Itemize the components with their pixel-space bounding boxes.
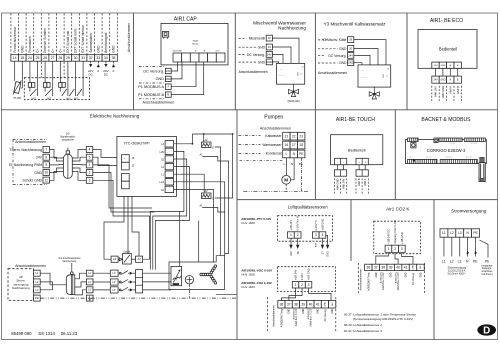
svg-text:DC: DC	[104, 72, 109, 76]
svg-text:27: 27	[51, 56, 55, 60]
svg-text:Kondensat: Kondensat	[266, 152, 282, 156]
svg-text:GND: GND	[327, 251, 330, 257]
svg-text:Elektrische Nachheizung: Elektrische Nachheizung	[90, 113, 140, 118]
svg-text:GND: GND	[258, 60, 266, 64]
svg-text:DC: DC	[89, 72, 94, 76]
svg-text:GND: GND	[391, 272, 393, 277]
svg-text:37: 37	[322, 251, 325, 254]
svg-text:26: 26	[43, 56, 47, 60]
svg-text:L2: L2	[450, 231, 454, 235]
svg-text:40-41: Luftqualitätssensor 3: 40-41: Luftqualitätssensor 3	[344, 329, 382, 333]
svg-text:+UB GND: +UB GND	[400, 232, 404, 244]
svg-text:06.11.23: 06.11.23	[61, 331, 78, 336]
svg-text:24V: 24V	[290, 251, 293, 256]
svg-text:A2: A2	[138, 257, 142, 261]
svg-text:HMI B: HMI B	[456, 86, 460, 94]
svg-text:N/O: N/O	[74, 97, 78, 100]
svg-text:3: 3	[401, 247, 403, 251]
svg-text:GND: GND	[339, 61, 347, 65]
svg-text:36: 36	[366, 266, 370, 270]
svg-text:GND: GND	[348, 61, 354, 65]
svg-text:GND: GND	[413, 265, 415, 270]
svg-text:EXT Schalt norm: EXT Schalt norm	[74, 28, 78, 52]
svg-text:L3': L3'	[88, 288, 92, 292]
svg-text:2x5: 2x5	[66, 134, 70, 136]
svg-text:GND: GND	[96, 45, 100, 53]
svg-text:Anschlussklemmen: Anschlussklemmen	[127, 23, 131, 52]
svg-text:xxx xxxx: xxx xxxx	[466, 157, 472, 159]
svg-text:PE: PE	[299, 152, 303, 156]
svg-text:0: 0	[97, 69, 99, 73]
svg-text:25: 25	[36, 56, 40, 60]
svg-text:+UB 24V: +UB 24V	[289, 220, 293, 231]
svg-text:24: 24	[28, 56, 32, 60]
svg-text:L3: L3	[458, 259, 462, 263]
svg-text:Signalverteiler-: Signalverteiler-	[60, 136, 76, 139]
svg-text:HMI B: HMI B	[357, 178, 361, 186]
svg-text:11: 11	[45, 178, 49, 182]
svg-text:L1': L1'	[88, 271, 92, 275]
svg-text:3: 3	[315, 233, 317, 237]
svg-text:Therm. Nachheizung: Therm. Nachheizung	[10, 148, 43, 152]
svg-text:Zuluft bzw. 0-10V: Zuluft bzw. 0-10V	[295, 308, 298, 326]
svg-text:Nachheizung: Nachheizung	[12, 286, 30, 290]
svg-text:36: 36	[297, 251, 300, 254]
svg-text:Anschlussklemmen: Anschlussklemmen	[15, 140, 46, 144]
svg-text:Abluft bzw. 0-10V: Abluft bzw. 0-10V	[309, 308, 312, 326]
svg-text:A1: A1	[113, 257, 117, 261]
svg-text:GND: GND	[156, 77, 165, 81]
svg-text:Bedienteil: Bedienteil	[439, 47, 457, 52]
svg-text:AIR1/KWL-CO2 0-10V: AIR1/KWL-CO2 0-10V	[241, 281, 272, 285]
svg-text:GND: GND	[112, 45, 116, 53]
svg-text:33: 33	[96, 56, 100, 60]
svg-text:HMI 24V: HMI 24V	[342, 178, 346, 189]
svg-text:2: 2	[297, 233, 299, 237]
svg-text:L: L	[286, 152, 288, 156]
svg-text:0-10V °C: 0-10V °C	[314, 220, 318, 231]
svg-text:AIR1/KWL-VOC 0-10V: AIR1/KWL-VOC 0-10V	[241, 269, 272, 273]
svg-text:L1: L1	[442, 259, 446, 263]
svg-text:GND: GND	[34, 171, 42, 175]
svg-text:1: 1	[388, 247, 390, 251]
svg-text:22: 22	[292, 134, 296, 138]
svg-text:Externer Schalter: Externer Schalter	[43, 27, 47, 53]
svg-text:Frostschutzsensor: Frostschutzsensor	[13, 26, 17, 53]
svg-text:AGND(24V): AGND(24V)	[380, 272, 383, 283]
svg-text:- - - -: - - - -	[279, 75, 285, 78]
svg-text:L2N: L2N	[160, 151, 165, 154]
svg-text:DC Versorg.: DC Versorg.	[412, 272, 415, 285]
svg-text:38: 38	[381, 266, 385, 270]
svg-text:Anschlussklemmen: Anschlussklemmen	[359, 268, 362, 290]
svg-text:GND: GND	[332, 308, 334, 313]
svg-text:GND: GND	[289, 308, 291, 313]
svg-text:PT-050: PT-050	[14, 98, 22, 100]
svg-text:0-10V: 0-10V	[300, 273, 304, 280]
svg-text:+UB GND: +UB GND	[321, 219, 325, 231]
svg-text:xxx xxxx: xxx xxxx	[446, 157, 452, 159]
svg-text:L1": L1"	[112, 272, 116, 275]
svg-text:GND: GND	[258, 46, 266, 50]
svg-text:Mischventil Warmwasser: Mischventil Warmwasser	[253, 20, 306, 26]
svg-text:19: 19	[349, 38, 352, 42]
svg-text:Y3 Mischventil Kaltwassersatz: Y3 Mischventil Kaltwassersatz	[324, 21, 386, 26]
svg-text:Art-Nr. 26201: Art-Nr. 26201	[241, 286, 255, 289]
svg-text:A2: A2	[204, 190, 208, 193]
svg-text:HMI GND: HMI GND	[336, 178, 340, 190]
svg-text:HMI GND: HMI GND	[441, 86, 445, 99]
svg-text:Schütz GND: Schütz GND	[23, 179, 43, 183]
svg-text:Schütz: Schütz	[123, 250, 131, 253]
svg-text:A1: A1	[199, 205, 203, 208]
svg-text:24V: 24V	[348, 53, 353, 57]
svg-text:24V: 24V	[36, 156, 43, 160]
svg-text:GND: GND	[339, 47, 347, 51]
svg-text:EXT Schalt intensiv: EXT Schalt intensiv	[81, 25, 85, 53]
svg-text:AIR1-BE TOUCH: AIR1-BE TOUCH	[336, 117, 375, 123]
svg-text:Bedienteil: Bedienteil	[348, 147, 366, 152]
svg-text:xxx: xxx	[409, 157, 412, 159]
svg-text:PE: PE	[35, 296, 39, 300]
svg-text:29: 29	[66, 56, 70, 60]
svg-text:AGND(24V)/Temp: AGND(24V)/Temp	[280, 308, 283, 327]
svg-text:38-39: Luftqualitätssensor 2: 38-39: Luftqualitätssensor 2	[344, 323, 382, 327]
svg-text:Stromversorg.: Stromversorg.	[62, 260, 77, 263]
svg-text:17: 17	[292, 143, 296, 147]
svg-text:2: 2	[394, 247, 396, 251]
svg-text:B: B	[167, 93, 169, 97]
svg-text:DC Versorg.: DC Versorg.	[324, 308, 327, 321]
svg-text:GND: GND	[441, 65, 446, 67]
svg-text:Anschlussklemmen: Anschlussklemmen	[239, 70, 268, 74]
svg-text:41: 41	[404, 266, 408, 270]
svg-text:EXT Schalt min: EXT Schalt min	[66, 31, 70, 53]
svg-text:M: M	[284, 178, 288, 183]
svg-text:AGND(24V): AGND(24V)	[395, 272, 398, 283]
svg-text:24V: 24V	[166, 69, 171, 73]
svg-text:Zuluft bzw. 0-10V: Zuluft bzw. 0-10V	[382, 272, 385, 290]
svg-text:34: 34	[104, 56, 108, 60]
svg-text:7: 7	[45, 148, 47, 152]
svg-text:Abluft bzw. 0-10V: Abluft bzw. 0-10V	[397, 272, 400, 290]
svg-text:GND: GND	[420, 272, 422, 277]
svg-text:L: L	[284, 162, 286, 166]
svg-text:1x2,5mm²): 1x2,5mm²)	[481, 273, 493, 276]
svg-text:DC Versorg.: DC Versorg.	[143, 70, 164, 74]
svg-text:24V: 24V	[433, 79, 438, 81]
svg-text:39: 39	[389, 266, 393, 270]
svg-text:Nachheizung: Nachheizung	[278, 26, 306, 32]
svg-text:(Temperaturausgang AIR1/KWL-FT: (Temperaturausgang AIR1/KWL-FTF 0-10V)	[353, 317, 414, 321]
svg-text:4: 4	[322, 233, 324, 237]
svg-text:1: 1	[89, 163, 91, 167]
svg-text:1: 1	[295, 283, 297, 287]
svg-text:Betriebssignal: Betriebssignal	[104, 32, 108, 52]
svg-text:18: 18	[299, 143, 303, 147]
svg-text:SS 1314: SS 1314	[38, 331, 55, 336]
svg-text:23: 23	[299, 134, 303, 138]
svg-text:10: 10	[44, 171, 48, 175]
svg-text:xxxx xxxx: xxxx xxxx	[471, 142, 478, 144]
svg-text:L2": L2"	[112, 281, 116, 284]
svg-text:xxx xxxx: xxx xxxx	[449, 142, 455, 144]
svg-text:GND: GND	[440, 79, 445, 81]
svg-text:P1 MODBUS B: P1 MODBUS B	[138, 93, 164, 97]
svg-text:14: 14	[13, 56, 17, 60]
svg-text:Air1 CO2 K: Air1 CO2 K	[386, 206, 410, 211]
svg-text:A1: A1	[199, 154, 203, 157]
svg-text:GND: GND	[165, 77, 171, 81]
svg-text:C+: C+	[58, 48, 62, 52]
svg-text:AGND(24V)/Temp: AGND(24V)/Temp	[367, 272, 370, 291]
svg-text:N: N	[291, 162, 293, 166]
svg-text:AIR1/KWL-PTF 0-10V: AIR1/KWL-PTF 0-10V	[241, 217, 271, 221]
svg-text:PE: PE	[473, 231, 478, 235]
svg-text:0-10V % r.H.: 0-10V % r.H.	[296, 215, 300, 230]
svg-text:Feueralarm: Feueralarm	[28, 36, 32, 53]
svg-text:Art-Nr. 26200: Art-Nr. 26200	[241, 274, 255, 277]
svg-text:C+: C+	[51, 48, 55, 52]
svg-text:Art-Nr. 26262: Art-Nr. 26262	[241, 222, 255, 225]
svg-text:+UB 24V: +UB 24V	[294, 269, 298, 280]
svg-text:GND: GND	[318, 308, 320, 313]
svg-text:4: 4	[89, 148, 91, 152]
svg-text:G: G	[212, 147, 214, 150]
svg-text:GND: GND	[376, 272, 378, 277]
svg-text:xxx xxxx: xxx xxxx	[426, 157, 432, 159]
svg-text:2: 2	[89, 171, 91, 175]
svg-text:- - - -: - - - -	[362, 76, 368, 79]
svg-text:40: 40	[309, 302, 313, 306]
svg-text:15: 15	[20, 56, 24, 60]
svg-text:0: 0	[113, 69, 115, 73]
svg-text:37: 37	[374, 266, 378, 270]
svg-text:GND: GND	[20, 45, 24, 53]
svg-text:20: 20	[349, 46, 352, 50]
svg-text:24V: 24V	[434, 65, 438, 67]
svg-text:28: 28	[58, 56, 62, 60]
svg-text:3: 3	[308, 283, 310, 287]
svg-text:TTC-OEMUT/PP: TTC-OEMUT/PP	[124, 141, 151, 145]
svg-text:AIR1- BE ECO: AIR1- BE ECO	[430, 18, 463, 24]
svg-text:24V DC/RO: 24V DC/RO	[173, 51, 183, 53]
svg-text:AIR1 CAP: AIR1 CAP	[174, 16, 197, 22]
svg-text:L2: L2	[450, 259, 454, 263]
svg-text:35: 35	[112, 56, 116, 60]
svg-text:L1: L1	[35, 271, 39, 275]
svg-text:31: 31	[81, 56, 85, 60]
svg-text:41: 41	[316, 302, 320, 306]
svg-text:Anschlussklemmen: Anschlussklemmen	[260, 127, 291, 131]
svg-text:N/O: N/O	[32, 97, 36, 100]
svg-text:DC Versorg.: DC Versorg.	[247, 53, 265, 57]
svg-text:4x1 Anschlussstecker: 4x1 Anschlussstecker	[58, 257, 80, 260]
svg-text:30: 30	[74, 56, 78, 60]
svg-text:3: 3	[89, 178, 91, 182]
svg-text:L2: L2	[35, 280, 39, 284]
svg-text:PE: PE	[299, 162, 303, 166]
svg-text:40: 40	[396, 266, 400, 270]
svg-text:Ausgang CO2 0-10V: Ausgang CO2 0-10V	[393, 220, 397, 244]
svg-text:Anschlussklemmen: Anschlussklemmen	[318, 71, 347, 75]
svg-text:85499 080: 85499 080	[11, 331, 32, 336]
svg-text:AGND(24V): AGND(24V)	[307, 308, 310, 319]
svg-text:PE: PE	[473, 259, 478, 263]
svg-text:Anschlussklemmen: Anschlussklemmen	[143, 101, 175, 105]
svg-text:HMI A: HMI A	[363, 178, 367, 186]
svg-text:GND: GND	[406, 272, 408, 277]
svg-text:Pumpen: Pumpen	[264, 115, 283, 121]
svg-text:Mischventil: Mischventil	[249, 37, 266, 41]
svg-text:1: 1	[290, 233, 292, 237]
svg-text:(WHS-HE): (WHS-HE)	[287, 99, 299, 103]
svg-text:Anschlussklemmen: Anschlussklemmen	[273, 305, 276, 327]
svg-text:Modus: Modus	[192, 43, 198, 45]
svg-text:Stromversorgung: Stromversorgung	[451, 209, 487, 214]
svg-text:GND: GND	[303, 308, 305, 313]
svg-text:36: 36	[280, 302, 284, 306]
svg-text:HMI A: HMI A	[448, 86, 452, 94]
svg-text:37: 37	[287, 302, 291, 306]
svg-text:ausgstecker: ausgstecker	[62, 139, 75, 142]
svg-text:N/O: N/O	[47, 97, 51, 100]
svg-text:GND: GND	[325, 302, 327, 307]
svg-text:38: 38	[294, 302, 298, 306]
svg-text:CORRIGO E282W-3: CORRIGO E282W-3	[427, 148, 466, 153]
svg-text:21: 21	[285, 134, 289, 138]
svg-text:L3": L3"	[112, 289, 116, 292]
svg-text:HMI 24V: HMI 24V	[434, 86, 438, 97]
svg-text:5: 5	[89, 155, 91, 159]
svg-text:N: N	[466, 259, 469, 263]
svg-text:2: 2	[301, 283, 303, 287]
svg-text:N/O: N/O	[66, 97, 70, 100]
svg-text:Luftqualitätssensoren: Luftqualitätssensoren	[288, 204, 328, 209]
svg-text:DC Versorg.: DC Versorg.	[328, 54, 346, 58]
svg-text:El. Nachheizung PWM: El. Nachheizung PWM	[9, 163, 42, 167]
svg-text:+UB 24V DC: +UB 24V DC	[387, 229, 391, 244]
svg-text:Anschlussklemmen: Anschlussklemmen	[15, 264, 46, 268]
svg-text:39: 39	[301, 302, 305, 306]
svg-text:Sammelalarm: Sammelalarm	[89, 33, 93, 53]
svg-text:L2': L2'	[88, 280, 92, 284]
svg-text:16: 16	[285, 143, 289, 147]
svg-text:GND: GND	[266, 60, 272, 64]
svg-text:C+: C+	[36, 48, 40, 52]
svg-text:L3: L3	[35, 288, 39, 292]
svg-text:24V: 24V	[267, 52, 272, 56]
svg-text:L1: L1	[442, 231, 446, 235]
svg-text:36-37: Luftqualitätssensor 1 o: 36-37: Luftqualitätssensor 1 oder Temper…	[344, 312, 417, 316]
svg-text:L3: L3	[458, 231, 462, 235]
svg-text:13: 13	[268, 45, 271, 49]
svg-text:Kaltwasser: Kaltwasser	[265, 134, 282, 138]
svg-text:8: 8	[45, 155, 47, 159]
svg-text:Modbl: Modbl	[193, 41, 199, 43]
svg-text:5x2,5mm² 400V~: 5x2,5mm² 400V~	[448, 272, 467, 275]
svg-text:9: 9	[45, 163, 47, 167]
svg-text:D: D	[483, 326, 490, 337]
svg-text:32: 32	[89, 56, 93, 60]
svg-text:L1/3: L1/3	[159, 181, 164, 184]
svg-text:+UB GND: +UB GND	[307, 268, 311, 280]
svg-text:12: 12	[268, 36, 271, 40]
svg-text:A: A	[167, 85, 169, 89]
svg-text:BACNET & MODBUS: BACNET & MODBUS	[421, 117, 471, 123]
svg-text:Warmwasser: Warmwasser	[262, 143, 282, 147]
svg-text:PE: PE	[485, 259, 490, 263]
svg-text:AGND(24V): AGND(24V)	[292, 308, 295, 319]
svg-text:A2: A2	[204, 139, 208, 142]
svg-text:P1 MODBUS A: P1 MODBUS A	[138, 85, 164, 89]
